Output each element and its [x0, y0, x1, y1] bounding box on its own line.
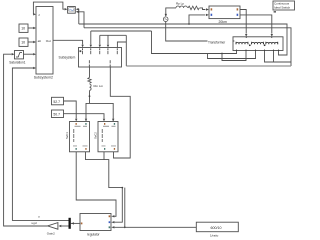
powergui block — [273, 1, 295, 10]
transformer winding group 3 — [266, 42, 278, 44]
arrow into Saturation1 — [12, 53, 15, 55]
wire: L2 left end up into scope input 2 — [79, 12, 85, 28]
arrow down into Subsystem top port2 — [90, 45, 92, 48]
label Transformer — [208, 40, 233, 44]
transformer winding group 2 — [252, 42, 264, 44]
svg-text:Saturation1: Saturation1 — [9, 60, 26, 64]
regulator block — [80, 214, 111, 231]
svg-text:Out: Out — [46, 39, 51, 43]
arrow into 20km port1 — [206, 8, 209, 10]
saturation curve icon — [16, 53, 22, 57]
regulator port marks — [81, 215, 110, 228]
arrow into scope right input 2 — [76, 11, 79, 13]
breaker block 2 — [98, 122, 118, 152]
svg-text:u: u — [38, 215, 40, 219]
saturation1 block — [15, 51, 24, 59]
wire: Subsystem bottom port 2 chain down to breaker2 bottom right — [110, 67, 130, 158]
wire: 20km output 2 down into Transformer top port 2 — [240, 15, 272, 34]
wire: feedback A gain output to Saturation1 input — [4, 54, 48, 226]
arrow into Subsystem2 port3 — [33, 41, 36, 43]
arrow into Subsystem2 port1 — [33, 13, 36, 15]
wire: constant 10 (lower) to Subsystem2 port 3 — [28, 41, 33, 43]
subsystem2 tall block — [36, 7, 53, 75]
wire: transformer bottom port 1 chain to bus L3 — [152, 31, 237, 54]
wire: feedback B demux to Subsystem2 port 5 — [12, 68, 68, 220]
constant block 10 lower — [19, 38, 28, 46]
inductor Lm coil vertical — [90, 84, 92, 90]
svg-text:10: 10 — [21, 27, 25, 31]
junction on L1 at x189 — [188, 23, 190, 25]
wire: demux lower output to Gain2 input — [61, 225, 68, 227]
wire: top feed into Subsystem2 port 1 and scope — [33, 2, 64, 14]
wire: transformer bottom port 3 link — [208, 51, 256, 59]
20km pi-section line block — [209, 6, 240, 19]
arrow into scope right input 1 — [76, 8, 79, 10]
svg-text:Transformer: Transformer — [208, 41, 226, 45]
wire: L1 left end up into scope input 1 — [78, 9, 80, 24]
resistor Rm zigzag vertical — [88, 78, 91, 84]
arrow down into Subsystem top port1 — [81, 45, 83, 48]
arrow into Subsystem2 port2 — [33, 27, 36, 29]
arrow down into breaker1 top left — [75, 119, 77, 122]
transformer block — [233, 37, 283, 51]
wire: RL branch splits to breaker1 and breaker2 top right ports — [86, 103, 113, 121]
breaker1 internals — [73, 123, 86, 150]
wire: breaker2 bottom left stub — [103, 152, 105, 160]
arrow down into Transformer top port1 — [245, 34, 247, 37]
arrow down into breaker2 top left — [103, 119, 105, 122]
constant block 50.7 — [52, 110, 64, 118]
transformer port ticks — [233, 37, 272, 41]
svg-text:ugd: ugd — [32, 221, 37, 225]
junction where breaker chain meets display line — [124, 226, 126, 228]
subsystem middle block — [79, 48, 122, 68]
wire: branch down to display line y227.3 — [124, 188, 126, 228]
svg-text:600/10: 600/10 — [211, 226, 222, 230]
svg-text:50.7: 50.7 — [53, 113, 60, 117]
arrow down into breaker2 top right — [112, 119, 114, 122]
arrow down into Transformer top port2 — [271, 34, 273, 37]
wire: Subsystem2 Out to Subsystem top port 1 — [53, 40, 83, 44]
svg-text:10: 10 — [21, 41, 25, 45]
arrow down into Subsystem top port3 — [99, 45, 101, 48]
junction on breaker chain — [121, 187, 123, 189]
wire: series RL branch line from source top to 20km port 1 — [166, 8, 206, 16]
wire: breaker1 bottom right and breaker2 bottom left chain to regulator input 2 — [86, 152, 123, 222]
wire: constant 50.7 to breaker2 top left port — [64, 114, 105, 119]
svg-text:alt: alt — [38, 39, 41, 43]
wire: bus line L4 y35 down into Subsystem top ports 3 and 4 — [100, 35, 127, 44]
arrow into regulator input1 — [111, 215, 114, 217]
arrow into regulator input3 — [111, 226, 114, 228]
junction on transformer bottom chain — [221, 53, 223, 55]
svg-text:1/ratio: 1/ratio — [210, 233, 219, 237]
svg-text:regulator: regulator — [87, 232, 101, 236]
transformer winding group 1 — [233, 37, 279, 51]
arrow down into AC source top — [165, 14, 167, 17]
arrow into Gain2 input — [58, 225, 61, 227]
wire: display 600/10 line to regulator input 3 — [114, 226, 196, 228]
arrow into Subsystem2 port4 — [33, 53, 36, 55]
demux bar — [69, 218, 71, 229]
wire: bus line L1 y24 with branch up to 20km port 2 and right end down to transformer — [79, 24, 287, 55]
wire: transformer bottom ports 4 and 5 link to right edge — [265, 51, 292, 62]
breaker block 1 — [70, 122, 90, 152]
svg-text:Ideal Switch: Ideal Switch — [274, 5, 291, 9]
wire: AC source bottom down and right into Transformer left port — [166, 22, 233, 42]
inductor Lp coil bumps — [176, 6, 187, 8]
wire: constant 10 (upper) to Subsystem2 port 2 — [28, 27, 33, 29]
constant block 10 upper — [19, 24, 28, 32]
arrow down into breaker1 top right — [85, 119, 87, 122]
svg-text:SvC1: SvC1 — [65, 132, 69, 139]
wire: 20km output 1 down into Transformer top port 1 — [240, 10, 246, 34]
svg-text:Subsystem: Subsystem — [59, 56, 76, 60]
svg-text:Subsystem2: Subsystem2 — [34, 76, 53, 80]
resistor Rp zigzag — [188, 6, 199, 10]
wire: Subsystem bottom port 1 down into Rm Lm branch — [89, 67, 91, 103]
wire: constant 52.7 to breaker1 top left port — [64, 101, 77, 119]
scope block — [68, 7, 76, 14]
arrow into demux right side — [71, 222, 74, 224]
breaker2 internals — [102, 123, 115, 150]
wire: breaker1 bottom left down to regulator input 1 — [76, 152, 116, 217]
svg-text:Gain2: Gain2 — [47, 231, 55, 235]
constant block 52.7 — [52, 97, 64, 105]
svg-text:Rp Lp: Rp Lp — [176, 2, 184, 6]
arrow into 20km port2 — [206, 14, 209, 16]
transformer winding dots — [249, 45, 250, 46]
20km port labels — [211, 8, 239, 16]
arrow into scope left input — [65, 8, 68, 10]
wire: bus line L2 y27.8 to right edge down to long grey line — [84, 28, 291, 66]
AC source circle — [163, 17, 168, 22]
subsystem2 port labels — [38, 13, 51, 43]
display block 600/10 — [196, 222, 238, 232]
arrow into Subsystem2 port5 — [33, 67, 36, 69]
arrow into regulator input2 — [111, 221, 114, 223]
subsystem top port marks — [80, 48, 118, 66]
svg-text:Rm Lm: Rm Lm — [94, 84, 104, 88]
svg-text:52.7: 52.7 — [53, 100, 60, 104]
svg-text:SvC2: SvC2 — [93, 132, 97, 139]
arrow down into Subsystem top port4 — [107, 45, 109, 48]
wire: Saturation1 output to Subsystem2 port 4 — [24, 53, 34, 55]
wire: Subsystem top port 5 stub up and right to vertical x126.3 — [117, 42, 126, 48]
wire: transformer bottom port 2 link — [222, 51, 246, 61]
wire: bus line L3 y30.5 down into Subsystem top port 2 — [91, 31, 152, 45]
wire: long grey horizontal line y66 — [126, 65, 291, 67]
gain2 triangle — [48, 223, 58, 230]
wire: demux output into regulator left port — [71, 222, 80, 224]
arrowheads group — [12, 8, 273, 229]
junction dot below Rm Lm — [89, 95, 91, 97]
svg-text:20km: 20km — [219, 20, 227, 24]
wire: vertical x126.3 from L4 down to long grey line — [125, 35, 127, 66]
